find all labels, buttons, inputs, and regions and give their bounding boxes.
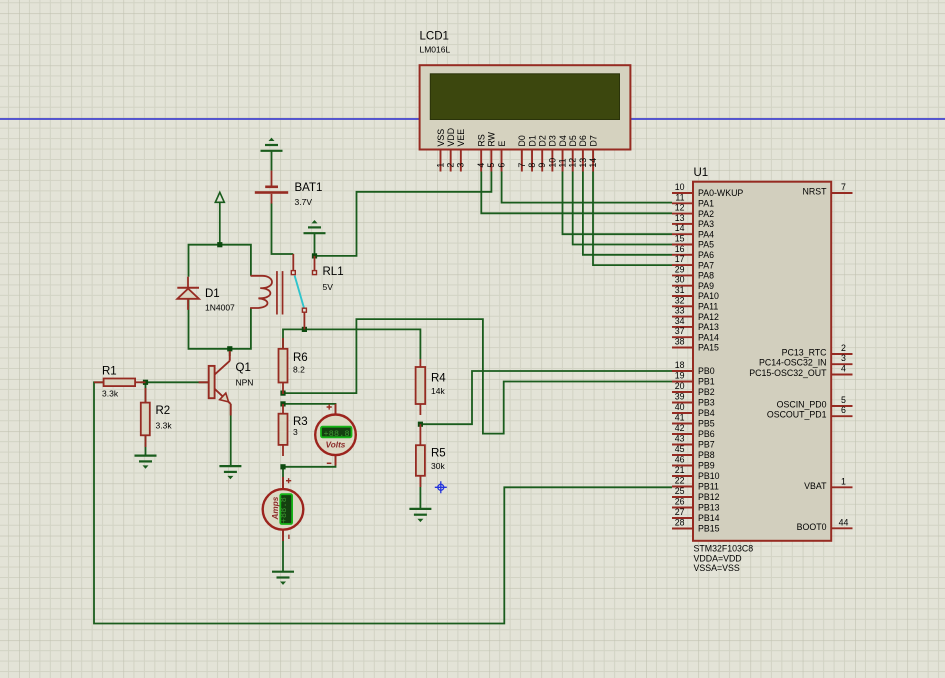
svg-text:PA6: PA6 [698, 250, 714, 260]
wire ground to BAT1 top [271, 151, 273, 171]
svg-text:VDD: VDD [446, 128, 456, 147]
svg-text:E: E [497, 141, 507, 147]
junction R1/R2/base node [143, 380, 148, 385]
microcontroller U1 right pin names [749, 187, 827, 532]
svg-text:29: 29 [675, 264, 685, 274]
ground below R5 [409, 509, 431, 522]
svg-text:40: 40 [675, 402, 685, 412]
wire R1 left to U1 PB11 (bottom loop) [94, 382, 672, 623]
svg-text:27: 27 [675, 507, 685, 517]
svg-text:Amps: Amps [271, 496, 280, 520]
svg-text:2: 2 [446, 163, 456, 168]
svg-text:D1: D1 [205, 288, 220, 300]
wire LCD RS to U1 PA2 [481, 172, 672, 214]
relay RL1 pole contact [302, 308, 306, 329]
svg-text:PA2: PA2 [698, 209, 714, 219]
svg-text:15: 15 [675, 234, 685, 244]
microcontroller U1 left pin names [698, 188, 743, 534]
svg-text:3: 3 [841, 353, 846, 363]
svg-text:7: 7 [517, 163, 527, 168]
svg-text:13: 13 [578, 158, 588, 168]
svg-text:33: 33 [675, 306, 685, 316]
svg-text:RL1: RL1 [323, 266, 344, 278]
svg-text:12: 12 [568, 158, 578, 168]
svg-text:6: 6 [496, 163, 506, 168]
svg-text:18: 18 [675, 360, 685, 370]
junction collector node [227, 346, 232, 351]
svg-text:39: 39 [675, 392, 685, 402]
svg-text:32: 32 [675, 295, 685, 305]
svg-text:7: 7 [841, 182, 846, 192]
svg-text:1N4007: 1N4007 [205, 303, 235, 313]
svg-text:VDDA=VDD: VDDA=VDD [694, 554, 742, 564]
wire divider tap to U1 PB0 [420, 371, 672, 424]
ground below ammeter [272, 572, 294, 585]
svg-text:PB6: PB6 [698, 429, 715, 439]
svg-text:VSSA=VSS: VSSA=VSS [694, 563, 740, 573]
svg-text:34: 34 [675, 316, 685, 326]
LCD LCD1 pin numbers [435, 158, 598, 168]
svg-text:PB7: PB7 [698, 440, 715, 450]
svg-text:OSCIN_PD0: OSCIN_PD0 [777, 400, 827, 410]
relay RL1 common contact [291, 254, 295, 275]
LCD LCD1 body [420, 65, 631, 149]
svg-text:R6: R6 [293, 352, 308, 364]
resistor R2 [141, 388, 173, 447]
wire ground to relay NO contact node [314, 233, 316, 256]
svg-text:43: 43 [675, 434, 685, 444]
svg-text:42: 42 [675, 423, 685, 433]
svg-text:PA0-WKUP: PA0-WKUP [698, 188, 743, 198]
svg-text:PA5: PA5 [698, 240, 714, 250]
blue horizontal guide line [0, 118, 945, 120]
power flag arrow [215, 192, 224, 244]
svg-text:20: 20 [675, 381, 685, 391]
svg-text:LM016L: LM016L [420, 45, 451, 55]
svg-text:D6: D6 [578, 135, 588, 146]
svg-text:38: 38 [675, 337, 685, 347]
svg-text:10: 10 [547, 158, 557, 168]
LCD LCD1 pin names [436, 128, 599, 147]
svg-text:4: 4 [476, 163, 486, 168]
svg-text:BAT1: BAT1 [295, 182, 323, 194]
svg-text:PB9: PB9 [698, 461, 715, 471]
svg-text:+88.8: +88.8 [324, 429, 350, 439]
svg-text:PB3: PB3 [698, 398, 715, 408]
svg-text:RS: RS [476, 134, 486, 146]
svg-text:Volts: Volts [326, 440, 346, 449]
svg-text:PB12: PB12 [698, 492, 720, 502]
svg-text:41: 41 [675, 413, 685, 423]
svg-text:25: 25 [675, 486, 685, 496]
svg-text:PB4: PB4 [698, 408, 715, 418]
svg-text:3: 3 [293, 427, 298, 437]
svg-text:VBAT: VBAT [804, 481, 827, 491]
resistor R5 [416, 424, 446, 487]
svg-text:STM32F103C8: STM32F103C8 [694, 544, 754, 554]
svg-text:PA4: PA4 [698, 229, 714, 239]
svg-text:3.7V: 3.7V [295, 197, 313, 207]
microcontroller U1 left pin numbers [675, 182, 685, 528]
svg-text:PB1: PB1 [698, 377, 715, 387]
svg-text:16: 16 [675, 244, 685, 254]
relay RL1 switch arm [295, 276, 304, 308]
svg-text:14: 14 [675, 223, 685, 233]
microcontroller U1 part text [694, 544, 754, 574]
svg-text:D3: D3 [548, 135, 558, 146]
svg-text:OSCOUT_PD1: OSCOUT_PD1 [767, 410, 827, 420]
svg-text:12: 12 [675, 203, 685, 213]
svg-text:21: 21 [675, 465, 685, 475]
svg-text:3.3k: 3.3k [102, 389, 119, 399]
svg-text:22: 22 [675, 476, 685, 486]
wire D1 relay top link [189, 245, 251, 277]
svg-text:8: 8 [527, 163, 537, 168]
transistor Q1 NPN [199, 351, 254, 416]
svg-text:PA14: PA14 [698, 332, 719, 342]
svg-text:D7: D7 [588, 135, 598, 146]
junction relay pole node [302, 327, 307, 332]
resistor R3 [279, 404, 308, 456]
svg-text:PB2: PB2 [698, 387, 715, 397]
relay RL1 label [323, 266, 344, 292]
ammeter Amps [263, 477, 304, 541]
LCD LCD1 pins [441, 150, 594, 172]
svg-text:D0: D0 [517, 135, 527, 146]
junction R6 bottom node [280, 391, 285, 396]
svg-text:13: 13 [675, 213, 685, 223]
wire R2 top [145, 382, 147, 402]
svg-text:4: 4 [841, 364, 846, 374]
svg-text:26: 26 [675, 497, 685, 507]
wire LCD D6 to U1 PA6 [583, 172, 672, 255]
microcontroller U1 right pins [831, 193, 852, 528]
wire ammeter minus to ground [282, 530, 284, 571]
svg-text:PA13: PA13 [698, 322, 719, 332]
svg-text:1: 1 [435, 163, 445, 168]
wire relay pole to R6 top and R4 top [283, 329, 420, 359]
relay RL1 NO contact [313, 256, 317, 275]
svg-text:31: 31 [675, 285, 685, 295]
svg-text:PB15: PB15 [698, 524, 720, 534]
svg-text:45: 45 [675, 444, 685, 454]
ground above BAT1 [261, 138, 283, 151]
junction voltmeter plus node [280, 401, 285, 406]
wire Q1 collector up [229, 349, 231, 356]
ground above relay contact [304, 220, 326, 233]
wire LCD E to U1 PA1 [502, 172, 672, 203]
svg-text:9: 9 [537, 163, 547, 168]
microcontroller U1 left pins [672, 193, 693, 529]
svg-text:11: 11 [675, 192, 684, 202]
svg-text:19: 19 [675, 371, 685, 381]
resistor R4 [416, 359, 447, 415]
svg-text:Q1: Q1 [236, 362, 251, 374]
svg-text:PB14: PB14 [698, 513, 720, 523]
diode D1 1N4007 [177, 277, 235, 313]
wire R3 bottom to ammeter plus [282, 467, 284, 489]
svg-text:30: 30 [675, 275, 685, 285]
svg-text:PC14-OSC32_IN: PC14-OSC32_IN [759, 358, 826, 368]
svg-text:2: 2 [841, 343, 846, 353]
relay RL1 coil [250, 276, 272, 308]
battery BAT1 3.7V [255, 171, 323, 207]
resistor R1 [94, 366, 146, 399]
svg-text:PA9: PA9 [698, 281, 714, 291]
voltmeter Volts [315, 404, 356, 466]
svg-text:PC13_RTC: PC13_RTC [782, 348, 827, 358]
svg-text:PB0: PB0 [698, 366, 715, 376]
wire BAT1 to relay common contact [272, 203, 294, 254]
svg-text:D1: D1 [527, 135, 537, 146]
svg-text:RW: RW [487, 131, 497, 146]
svg-text:U1: U1 [694, 167, 709, 179]
resistor R6 [279, 338, 308, 394]
wire R2 bottom to ground [145, 435, 147, 454]
wire LCD D4 to U1 PA4 [563, 172, 673, 235]
svg-text:PB13: PB13 [698, 503, 720, 513]
svg-text:VSS: VSS [436, 129, 446, 147]
svg-text:PB8: PB8 [698, 450, 715, 460]
svg-text:BOOT0: BOOT0 [797, 522, 827, 532]
wire Q1 emitter to ground [230, 404, 232, 465]
svg-text:14k: 14k [431, 386, 445, 396]
svg-text:PA3: PA3 [698, 219, 714, 229]
relay RL1 core [276, 271, 283, 314]
wire R6/R3 node to voltmeter plus [283, 404, 336, 414]
svg-text:D2: D2 [538, 135, 548, 146]
svg-text:NRST: NRST [803, 187, 828, 197]
svg-text:28: 28 [675, 518, 685, 528]
svg-text:PB5: PB5 [698, 419, 715, 429]
svg-text:3: 3 [456, 163, 466, 168]
wire LCD D7 to U1 PA7 [593, 172, 672, 266]
svg-text:+88.8: +88.8 [279, 497, 289, 523]
svg-text:37: 37 [675, 326, 685, 336]
svg-text:5V: 5V [323, 282, 334, 292]
svg-text:R4: R4 [431, 373, 446, 385]
svg-text:PA7: PA7 [698, 260, 714, 270]
microcontroller U1 label [694, 167, 709, 179]
svg-text:30k: 30k [431, 461, 445, 471]
svg-text:PC15-OSC32_OUT: PC15-OSC32_OUT [749, 368, 827, 378]
svg-text:PB11: PB11 [698, 482, 719, 492]
junction power arrow node [217, 242, 222, 247]
wire R5 bottom to ground [419, 476, 421, 509]
svg-text:NPN: NPN [236, 378, 254, 388]
svg-text:PA12: PA12 [698, 312, 719, 322]
wire LCD D5 to U1 PA5 [573, 172, 672, 245]
ground below Q1 emitter [219, 466, 241, 479]
svg-text:44: 44 [839, 517, 849, 527]
svg-text:10: 10 [675, 182, 685, 192]
wire D1 relay bottom link [189, 299, 251, 349]
microcontroller U1 right pin numbers [839, 182, 849, 527]
svg-text:46: 46 [675, 455, 685, 465]
svg-text:PA1: PA1 [698, 199, 714, 209]
svg-text:PA10: PA10 [698, 291, 719, 301]
svg-text:6: 6 [841, 405, 846, 415]
svg-text:VEE: VEE [456, 129, 466, 147]
junction R3 bottom node [280, 464, 285, 469]
svg-text:1: 1 [841, 476, 846, 486]
microcontroller U1 body [693, 182, 831, 541]
wire LCD RW to ground net [315, 172, 492, 256]
junction divider tap node [418, 422, 423, 427]
svg-text:R2: R2 [156, 405, 171, 417]
svg-text:5: 5 [486, 163, 496, 168]
svg-text:11: 11 [557, 158, 567, 167]
svg-text:14: 14 [588, 158, 598, 168]
svg-text:D4: D4 [558, 135, 568, 146]
svg-text:D5: D5 [568, 135, 578, 146]
svg-text:R1: R1 [102, 366, 117, 378]
svg-text:17: 17 [675, 254, 685, 264]
svg-text:R5: R5 [431, 448, 446, 460]
svg-text:5: 5 [841, 395, 846, 405]
svg-text:PA15: PA15 [698, 343, 719, 353]
wire R1 right to Q1 base [141, 381, 210, 383]
svg-text:LCD1: LCD1 [420, 31, 449, 43]
svg-text:PA11: PA11 [698, 302, 718, 312]
wire R6 bottom to U1 PB1 [283, 319, 672, 434]
junction relay NO/ground node [312, 253, 317, 258]
svg-text:3.3k: 3.3k [156, 421, 173, 431]
LCD LCD1 label [420, 31, 451, 55]
origin marker [435, 481, 447, 493]
svg-text:8.2: 8.2 [293, 365, 305, 375]
ground below R2 [135, 456, 157, 469]
wire voltmeter minus to R3 bottom [283, 455, 336, 467]
svg-text:PB10: PB10 [698, 471, 720, 481]
svg-text:PA8: PA8 [698, 271, 714, 281]
